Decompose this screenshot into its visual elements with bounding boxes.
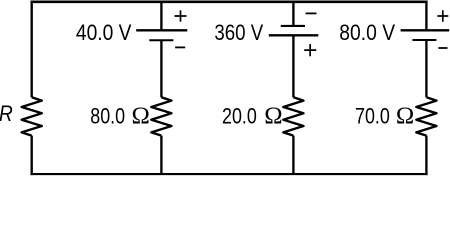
wire branch2 top — [292, 1, 294, 26]
svg-text:70.0: 70.0 — [355, 104, 390, 129]
resistor R1 80.0 ohm — [151, 97, 171, 135]
wire branch1 bottom — [160, 136, 162, 174]
resistor R2 20.0 ohm — [283, 97, 303, 135]
resistor R — [22, 97, 42, 135]
wire right border bottom — [425, 136, 427, 176]
svg-text:Ω: Ω — [132, 103, 150, 130]
wire top border — [31, 0, 428, 3]
battery V2 short plate — [281, 25, 305, 27]
battery V3 short plate — [412, 39, 436, 41]
svg-text:Ω: Ω — [396, 103, 414, 130]
battery V1 long plate — [136, 29, 187, 31]
battery V1 minus sign — [175, 46, 185, 48]
battery V1 plus sign — [175, 10, 187, 22]
wire left border upper segment — [31, 1, 33, 98]
wire branch1 top — [160, 1, 162, 31]
svg-text:R: R — [0, 101, 13, 126]
svg-text:20.0: 20.0 — [222, 104, 257, 129]
wire branch2 middle — [292, 35, 294, 97]
battery V2 plus sign — [304, 44, 316, 56]
battery V3 minus sign — [438, 47, 447, 49]
battery V2 minus sign — [306, 12, 317, 14]
battery V3 plus sign — [437, 10, 448, 22]
wire branch2 bottom — [292, 136, 294, 174]
wire right border top — [425, 1, 427, 31]
wire branch1 middle — [160, 40, 162, 97]
svg-text:Ω: Ω — [264, 103, 282, 130]
battery V1 short plate — [149, 39, 173, 41]
battery V3 long plate — [401, 29, 450, 31]
resistor R3 70.0 ohm — [416, 97, 436, 135]
svg-text:360 V: 360 V — [214, 20, 263, 45]
svg-text:40.0 V: 40.0 V — [76, 20, 132, 45]
wire bottom border — [31, 173, 428, 175]
svg-text:80.0: 80.0 — [90, 104, 125, 129]
svg-text:80.0 V: 80.0 V — [339, 20, 395, 45]
battery V2 long plate — [269, 34, 319, 36]
wire right border middle — [425, 40, 427, 97]
wire left border lower segment — [31, 136, 33, 176]
